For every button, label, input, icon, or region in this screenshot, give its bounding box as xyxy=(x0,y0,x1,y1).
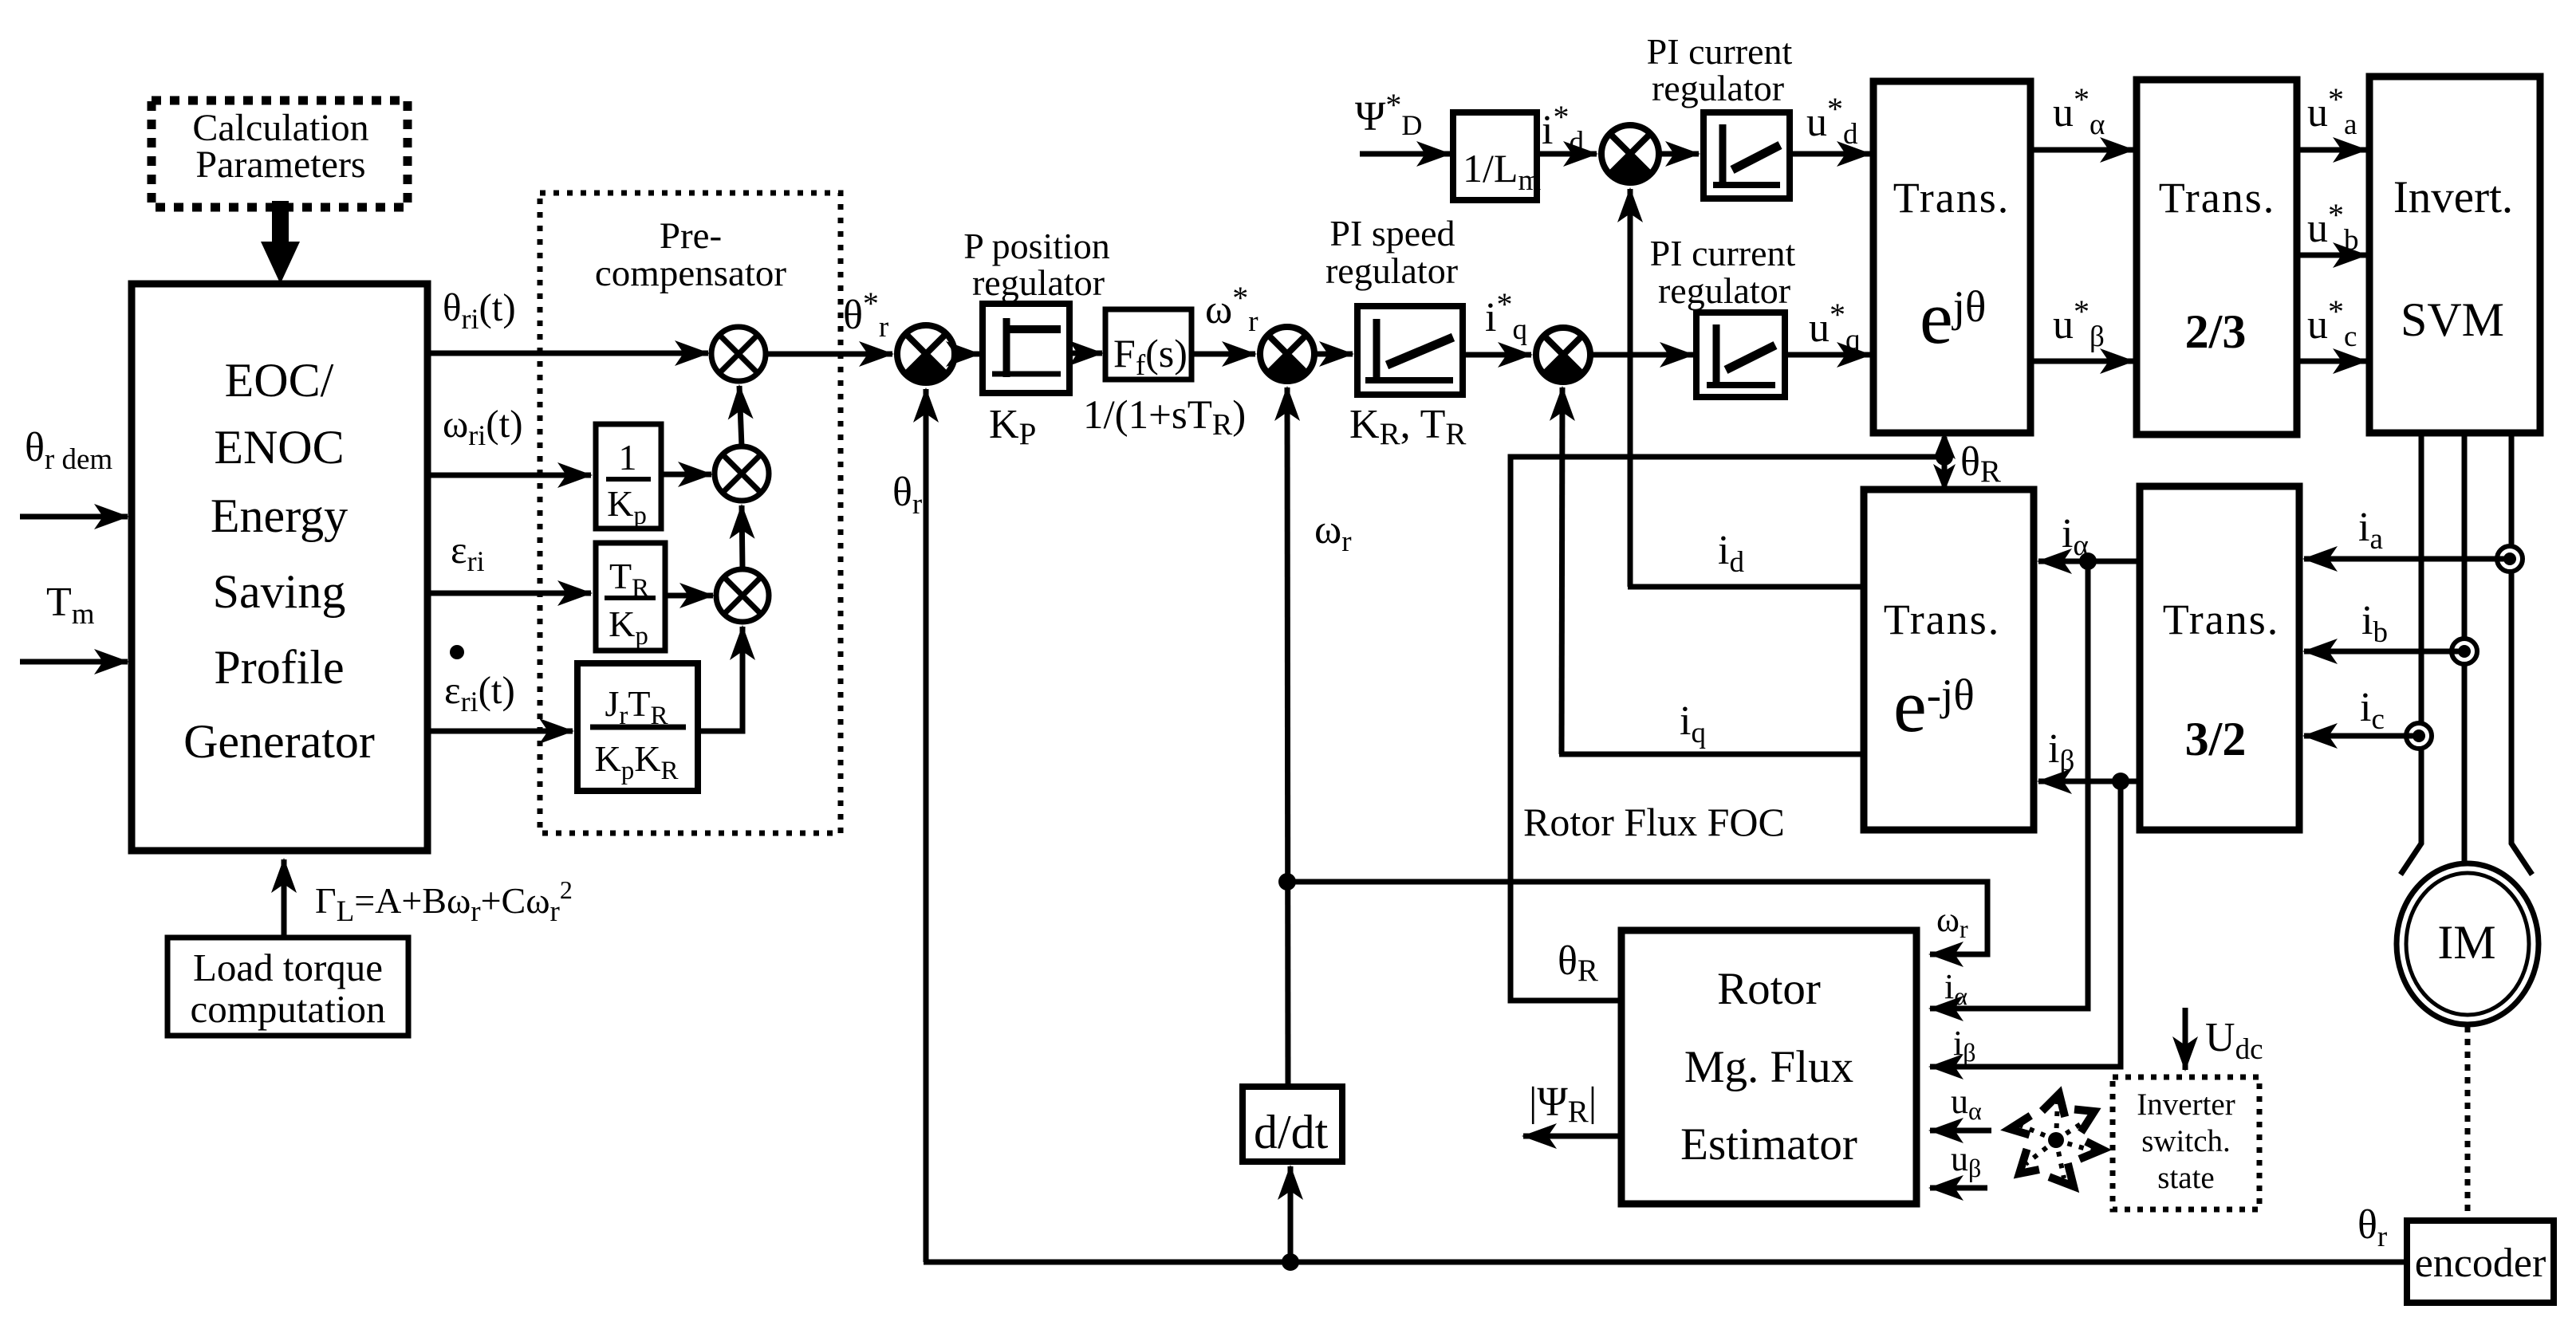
wire SVM output line a xyxy=(2401,433,2421,875)
wire U_dc arrow xyxy=(2183,1008,2188,1070)
block Invert. SVM xyxy=(2369,77,2540,433)
wire omega_r feedback up into S2 xyxy=(1287,387,1288,1087)
symbol star burst xyxy=(2010,1094,2102,1186)
svg-text:Inverter: Inverter xyxy=(2137,1087,2235,1122)
wire u*_c xyxy=(2297,359,2366,364)
svg-text:regulator: regulator xyxy=(1652,68,1784,108)
svg-text:computation: computation xyxy=(191,987,386,1031)
wire theta_ri output EOC to M1 xyxy=(427,351,708,356)
wire theta_R down arrow into Trans e^-jtheta xyxy=(1933,457,1956,492)
wire i_q horizontal from Trans e^-jtheta xyxy=(1559,752,1865,757)
wire theta_R up arrow into Trans e^jtheta xyxy=(1933,431,1956,459)
wire dotted motor to encoder xyxy=(2465,1026,2471,1219)
wire S4 to PI current regulator 1 xyxy=(1659,151,1699,157)
wire omega_r branch to estimator xyxy=(1287,882,1987,954)
wire S2 to PI speed regulator xyxy=(1314,352,1353,357)
block P position regulator xyxy=(983,304,1069,393)
wire 1/Kp to M2 xyxy=(661,472,711,478)
wire PI speed to S3 xyxy=(1463,352,1531,358)
wire theta_r feedback up into S1 xyxy=(924,389,929,1262)
wire epsilon_ri_dot output EOC to JrTR/KpKR xyxy=(427,729,573,734)
svg-text:Mg. Flux: Mg. Flux xyxy=(1684,1042,1853,1092)
multiplier M1 (theta path) xyxy=(711,327,766,381)
wire i_d horizontal from Trans e^-jtheta xyxy=(1628,584,1865,590)
wire P regulator to Ff(s) xyxy=(1069,351,1102,356)
svg-text:d/dt: d/dt xyxy=(1254,1106,1329,1158)
wire |Psi_R| output xyxy=(1523,1134,1621,1139)
svg-text:PI speed: PI speed xyxy=(1329,213,1455,254)
svg-text:ENOC: ENOC xyxy=(214,421,344,474)
junction dot omega_r branch xyxy=(1278,873,1296,891)
wire S1 to P regulator xyxy=(955,352,979,357)
wire omega_ri output EOC to 1/Kp xyxy=(427,473,591,478)
wire i_beta from 3/2 to e^-jtheta xyxy=(2038,779,2138,784)
svg-text:EOC/: EOC/ xyxy=(225,354,334,407)
block Pre-compensator (dotted) xyxy=(540,193,841,833)
wire SVM output line c xyxy=(2511,433,2532,875)
svg-text:regulator: regulator xyxy=(1658,270,1790,311)
wire theta_R distribution from estimator xyxy=(1511,457,1944,1001)
wire u*_b xyxy=(2297,253,2366,258)
block Trans e^jtheta xyxy=(1873,81,2030,433)
svg-text:Rotor: Rotor xyxy=(1717,964,1821,1014)
svg-text:Trans.: Trans. xyxy=(2159,174,2276,222)
block Inverter switch. state (dotted) xyxy=(2113,1077,2259,1209)
block Trans e^-jtheta xyxy=(1864,490,2034,830)
svg-text:IM: IM xyxy=(2437,916,2495,969)
svg-text:3/2: 3/2 xyxy=(2185,713,2247,765)
wire u*_beta xyxy=(2030,359,2133,364)
block Trans 3/2 xyxy=(2140,486,2299,830)
node epsilon_ri_dot(t) label xyxy=(444,645,515,718)
wire u_alpha stub to estimator xyxy=(1930,1128,1991,1134)
wire i_d feedback up into S4 xyxy=(1628,189,1633,587)
svg-text:Energy: Energy xyxy=(211,490,348,542)
SECTION: precomp xyxy=(540,193,892,833)
block PI speed regulator xyxy=(1357,306,1463,395)
junction dot theta_r bottom xyxy=(1282,1253,1299,1271)
svg-text:Rotor Flux FOC: Rotor Flux FOC xyxy=(1523,800,1785,844)
multiplier M3 (epsilon path) xyxy=(716,569,769,622)
junction dot i_alpha xyxy=(2079,552,2097,570)
block Trans 2/3 xyxy=(2137,80,2297,435)
summing junction S4 (d current) xyxy=(1601,125,1659,183)
block encoder xyxy=(2407,1221,2554,1303)
svg-text:regulator: regulator xyxy=(1325,250,1458,291)
svg-text:Profile: Profile xyxy=(214,641,344,694)
node i_b tap xyxy=(2452,639,2477,664)
svg-text:Saving: Saving xyxy=(213,565,346,618)
block 1/Kp gain xyxy=(596,424,661,530)
multiplier M2 (omega path) xyxy=(715,446,769,501)
wire theta_r_dem input xyxy=(20,514,128,520)
block Ff(s) xyxy=(1105,309,1191,382)
junction dot i_beta xyxy=(2112,773,2129,790)
wire i_b to Trans 3/2 xyxy=(2304,649,2459,655)
svg-text:regulator: regulator xyxy=(972,262,1105,303)
svg-text:compensator: compensator xyxy=(595,253,786,294)
wire TR/Kp to M3 xyxy=(665,593,713,599)
wire thick arrow Calculation Parameters to EOC xyxy=(261,201,300,284)
block 1/Lm xyxy=(1453,112,1541,200)
svg-text:Parameters: Parameters xyxy=(195,144,365,186)
svg-text:θri(t): θri(t) xyxy=(443,285,516,335)
block PI current regulator 2 xyxy=(1696,313,1785,397)
svg-text:Load torque: Load torque xyxy=(193,946,383,989)
wire u_beta stub to estimator xyxy=(1930,1186,1987,1191)
svg-text:Generator: Generator xyxy=(183,715,375,768)
wire Load torque to EOC xyxy=(282,859,287,936)
wire i_alpha from 3/2 to e^-jtheta xyxy=(2038,559,2138,564)
svg-text:2/3: 2/3 xyxy=(2185,305,2247,358)
wire M1 to S1 xyxy=(766,352,892,357)
wire i_c to Trans 3/2 xyxy=(2304,733,2413,739)
block Calculation Parameters (dotted) xyxy=(152,100,408,207)
svg-text:Estimator: Estimator xyxy=(1680,1119,1857,1170)
SECTION: bottom xyxy=(924,1260,2405,1265)
junction dot theta_R xyxy=(1936,448,1953,466)
block Load torque computation xyxy=(167,938,408,1036)
SECTION: middle xyxy=(892,31,2001,1271)
wire Ff(s) to S2 xyxy=(1191,352,1255,357)
svg-text:εri(t): εri(t) xyxy=(444,668,515,718)
block EOC/ENOC Energy Saving Profile Generator xyxy=(132,284,427,851)
svg-text:Trans.: Trans. xyxy=(2163,596,2280,643)
wire M2 to M1 xyxy=(739,386,742,446)
wire u*_alpha xyxy=(2030,147,2133,153)
svg-text:ΓL=A+Bωr+Cωr2: ΓL=A+Bωr+Cωr2 xyxy=(315,875,573,928)
SECTION: right xyxy=(1864,77,2554,1303)
svg-text:switch.: switch. xyxy=(2141,1124,2231,1158)
svg-text:Invert.: Invert. xyxy=(2393,172,2513,222)
svg-text:Trans.: Trans. xyxy=(1893,174,2011,222)
wire epsilon_ri output EOC to TR/Kp xyxy=(427,591,591,596)
wire PI current 2 to Trans e^jtheta xyxy=(1785,352,1870,358)
block PI current regulator 1 xyxy=(1704,112,1790,199)
wire u*_a xyxy=(2297,147,2366,153)
wire S3 to PI current regulator 2 xyxy=(1590,352,1693,358)
wire SVM output line b xyxy=(2462,433,2468,866)
wire i_q feedback up into S3 xyxy=(1562,387,1562,754)
summing junction S1 (position) xyxy=(897,325,955,383)
block Rotor Mg. Flux Estimator xyxy=(1621,930,1916,1204)
wire i_beta down to estimator xyxy=(1930,781,2121,1067)
wire M3 to M2 xyxy=(742,505,742,568)
node i_a tap xyxy=(2497,546,2523,572)
summing junction S3 (q current) xyxy=(1536,328,1590,382)
SECTION: left xyxy=(20,100,708,1036)
svg-text:Pre-: Pre- xyxy=(660,215,722,257)
wire PI current 1 to Trans e^jtheta xyxy=(1790,151,1870,157)
wire i_alpha down to estimator xyxy=(1930,561,2088,1009)
motor IM xyxy=(2397,863,2539,1024)
svg-text:PI current: PI current xyxy=(1650,233,1796,273)
wire T_m input xyxy=(20,659,128,665)
node i_c tap xyxy=(2406,723,2432,749)
svg-text:encoder: encoder xyxy=(2415,1241,2546,1286)
wire 1/Lm to S4 xyxy=(1537,151,1597,157)
block TR/Kp gain xyxy=(596,543,665,651)
svg-text:Trans.: Trans. xyxy=(1884,596,2001,643)
wire JrTR/KpKR to M3 bottom xyxy=(698,627,742,731)
wire junction to d/dt xyxy=(1288,1166,1294,1262)
svg-text:1: 1 xyxy=(619,437,637,478)
svg-text:Ff(s): Ff(s) xyxy=(1113,331,1188,382)
svg-text:SVM: SVM xyxy=(2401,293,2504,346)
wire i_a to Trans 3/2 xyxy=(2304,556,2504,562)
summing junction S2 (speed) xyxy=(1260,327,1314,381)
svg-text:PI current: PI current xyxy=(1647,31,1793,72)
block d/dt xyxy=(1243,1087,1342,1162)
wire theta_r bottom from encoder xyxy=(924,1260,2405,1265)
wire Psi input to 1/Lm xyxy=(1360,151,1450,157)
block JrTR/KpKR gain xyxy=(577,663,698,791)
svg-text:state: state xyxy=(2157,1161,2214,1195)
svg-text:P position: P position xyxy=(963,226,1110,266)
